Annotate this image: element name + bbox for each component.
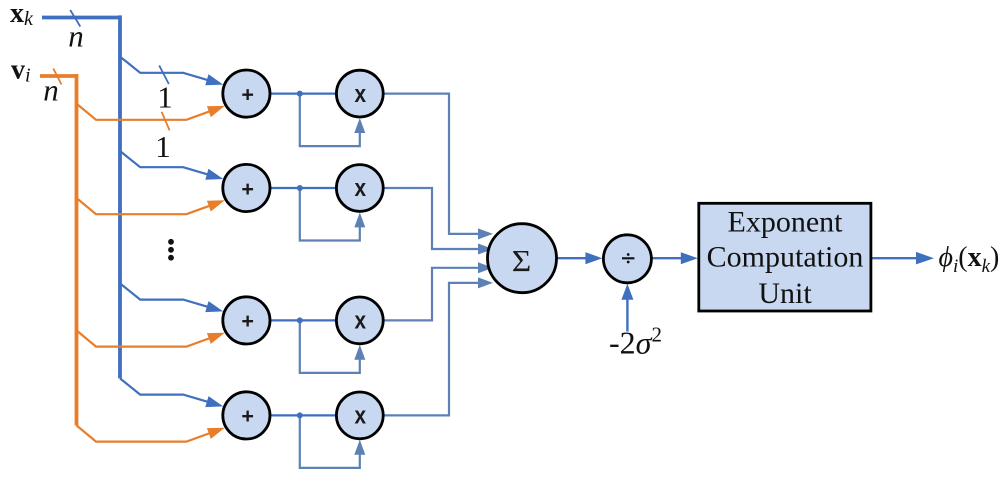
svg-text:x: x [355, 174, 367, 202]
svg-text:n: n [68, 19, 84, 54]
svg-text:+: + [241, 309, 254, 333]
svg-text:Computation: Computation [707, 241, 864, 274]
svg-text:1: 1 [157, 80, 173, 115]
svg-text:xk: xk [10, 0, 34, 30]
svg-text:Σ: Σ [512, 243, 532, 277]
svg-text:+: + [241, 82, 254, 106]
svg-text:x: x [355, 401, 367, 429]
svg-text:Unit: Unit [758, 277, 812, 310]
svg-text:x: x [355, 79, 367, 107]
svg-text:-2σ2: -2σ2 [609, 323, 662, 361]
svg-text:Exponent: Exponent [728, 206, 844, 239]
svg-text:vi: vi [11, 55, 31, 87]
svg-text:+: + [241, 177, 254, 201]
svg-text:ϕi(xk): ϕi(xk) [939, 242, 1000, 277]
svg-text:n: n [43, 73, 59, 108]
svg-text:+: + [241, 404, 254, 428]
svg-text:x: x [355, 306, 367, 334]
svg-text:1: 1 [155, 129, 171, 164]
